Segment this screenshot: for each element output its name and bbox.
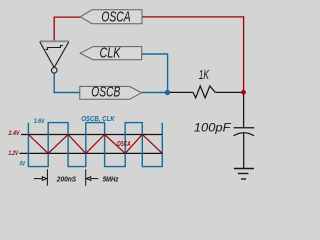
svg-text:1K: 1K	[199, 68, 210, 82]
svg-text:OSCA: OSCA	[101, 10, 130, 26]
svg-text:OSCB: OSCB	[91, 85, 120, 101]
svg-text:2.4V: 2.4V	[8, 130, 20, 137]
svg-text:CLK: CLK	[100, 46, 122, 62]
svg-text:3.6V: 3.6V	[34, 118, 45, 125]
svg-text:200nS: 200nS	[56, 177, 77, 184]
svg-text:0V: 0V	[20, 160, 26, 167]
svg-text:1.2V: 1.2V	[9, 150, 19, 157]
svg-text:OSCB, CLK: OSCB, CLK	[81, 114, 115, 123]
svg-text:OSCA: OSCA	[117, 141, 131, 148]
svg-text:100pF: 100pF	[194, 120, 231, 134]
svg-text:5MHz: 5MHz	[103, 177, 119, 184]
